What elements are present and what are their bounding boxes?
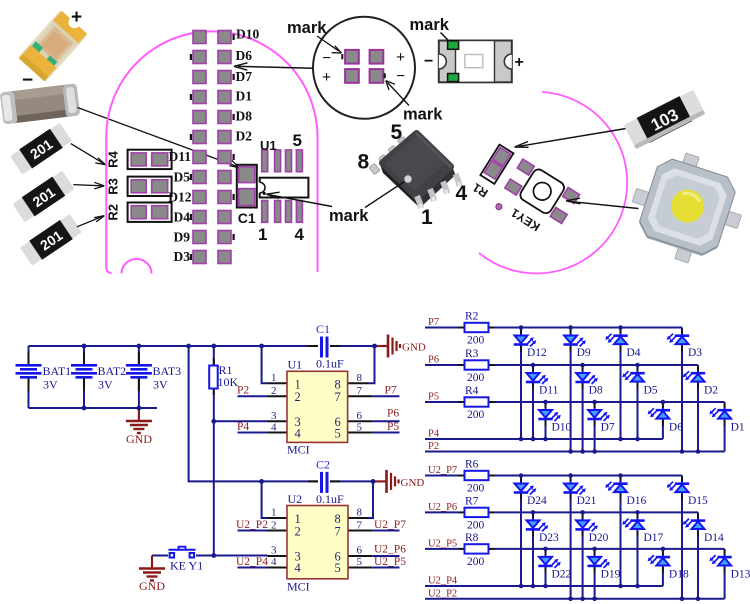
svg-text:5: 5: [335, 561, 341, 575]
battery BAT1: [16, 365, 42, 377]
LED D8: [575, 371, 598, 384]
LED D5: [622, 371, 645, 383]
svg-text:P5: P5: [387, 421, 399, 433]
svg-text:D2: D2: [704, 385, 718, 397]
svg-text:D8: D8: [589, 385, 603, 397]
svg-text:1: 1: [258, 225, 267, 244]
svg-text:3: 3: [271, 545, 277, 557]
svg-text:7: 7: [357, 520, 363, 532]
svg-text:MCI: MCI: [287, 443, 310, 457]
LED D24: [514, 482, 537, 495]
LED pin stubs: [521, 329, 725, 427]
long arrow from circle to D7 pads: [238, 66, 313, 68]
svg-text:8: 8: [358, 151, 370, 174]
svg-text:6: 6: [357, 545, 363, 557]
footprint R4: [128, 150, 172, 169]
svg-text:D18: D18: [669, 568, 689, 580]
wire: U2 pin4 net U2_P4: [238, 567, 268, 569]
wire: key to U2 pin3: [196, 555, 268, 557]
U1 net labels: [237, 385, 399, 434]
footprint U1 pads top: [262, 150, 303, 222]
svg-text:3V: 3V: [98, 378, 113, 392]
svg-text:R7: R7: [465, 495, 479, 507]
svg-text:mark: mark: [410, 16, 450, 34]
LED D7: [587, 408, 610, 421]
svg-text:D1: D1: [731, 422, 745, 434]
svg-text:7: 7: [357, 385, 363, 397]
ground right of C2: [373, 470, 399, 493]
pin stubs black: [29, 346, 373, 568]
svg-text:+: +: [515, 54, 524, 71]
LED pin stubs: [521, 477, 725, 573]
svg-text:D5: D5: [644, 385, 658, 397]
svg-text:4: 4: [456, 182, 468, 205]
svg-text:R4: R4: [106, 150, 121, 167]
wire: U1 pin7 net P7: [372, 395, 399, 397]
wire: row P7: [425, 328, 725, 452]
svg-text:D16: D16: [627, 495, 647, 507]
LED D10: [538, 408, 561, 421]
footprint R1 outline: [480, 145, 513, 184]
svg-text:R2: R2: [106, 204, 121, 221]
svg-text:mark: mark: [329, 207, 369, 225]
svg-text:−: −: [396, 68, 405, 85]
svg-text:U2_P7: U2_P7: [374, 519, 406, 531]
wire: U2 pin7 net U2_P7: [372, 530, 399, 532]
svg-text:1: 1: [271, 507, 277, 519]
wire: U1 pin5 net P5: [372, 432, 399, 434]
svg-text:4: 4: [271, 421, 277, 433]
junction dots: [519, 473, 701, 601]
svg-text:GND: GND: [126, 432, 152, 446]
svg-text:U2_P4: U2_P4: [428, 576, 458, 587]
footprint R3: [128, 177, 172, 196]
LED D21: [563, 482, 586, 495]
LED column wires: [521, 328, 725, 452]
LED D17: [622, 518, 645, 530]
KEY1 body outline: [518, 167, 566, 215]
photo: push button: [620, 142, 750, 274]
svg-text:D4: D4: [174, 210, 191, 225]
footprint R2: [128, 203, 172, 222]
photo: resistor 201 #2: [12, 170, 75, 223]
svg-text:P7: P7: [428, 317, 439, 328]
resistor R6 200: [465, 471, 489, 480]
push switch KEY1: [169, 547, 196, 558]
wire: battery left leg: [28, 346, 30, 365]
pad polarity tick marks: [190, 34, 235, 260]
wire: U2 pin8 riser: [368, 481, 373, 518]
svg-text:D3: D3: [174, 249, 191, 264]
U2 inside pin numbers: [295, 512, 341, 575]
svg-text:7: 7: [335, 525, 341, 539]
wire: U1 pin4 net P4: [238, 432, 268, 434]
junction dots: [519, 325, 701, 454]
svg-text:U2_P4: U2_P4: [236, 556, 268, 568]
svg-text:200: 200: [467, 409, 485, 421]
resistor R8 200: [465, 544, 489, 553]
wire: VCC drop to U2 rail: [189, 346, 318, 481]
PCB LED pads grid: [193, 31, 231, 264]
svg-text:4: 4: [271, 556, 277, 568]
LED D23: [526, 518, 549, 531]
soic body: [380, 165, 420, 209]
LED D1: [709, 408, 732, 420]
svg-text:4: 4: [295, 225, 305, 244]
svg-text:D22: D22: [552, 568, 572, 580]
svg-text:200: 200: [467, 519, 485, 531]
svg-text:C2: C2: [316, 458, 330, 472]
svg-text:U2_P6: U2_P6: [374, 544, 406, 556]
svg-text:−: −: [22, 70, 33, 91]
footprint C1: [237, 165, 257, 208]
U2 net labels: [236, 519, 406, 568]
svg-text:D11: D11: [539, 385, 559, 397]
circle polarity signs: [322, 49, 405, 86]
svg-text:2: 2: [271, 520, 277, 532]
svg-text:+: +: [71, 7, 82, 28]
PCB board outline (pink capsule): [106, 31, 317, 272]
svg-text:P2: P2: [237, 385, 249, 397]
svg-text:D9: D9: [577, 347, 591, 359]
wire: U2 pin1 feed: [262, 481, 268, 518]
svg-text:D6: D6: [669, 422, 683, 434]
svg-text:D13: D13: [731, 568, 750, 580]
LED D20: [575, 518, 598, 531]
svg-text:D15: D15: [688, 495, 708, 507]
LED D19: [587, 555, 610, 568]
svg-text:P2: P2: [428, 441, 439, 452]
svg-text:U2_P6: U2_P6: [428, 502, 457, 513]
svg-text:0.1uF: 0.1uF: [316, 492, 344, 506]
junction dots left schematic: [82, 344, 377, 558]
battery BAT2: [71, 365, 97, 377]
svg-text:GND: GND: [402, 342, 426, 354]
svg-text:D21: D21: [577, 495, 597, 507]
resistor R2 200: [465, 323, 489, 332]
ground below key: [139, 556, 165, 581]
svg-text:D2: D2: [236, 129, 253, 144]
arrow button photo to KEY1 footprint: [568, 201, 639, 208]
svg-text:mark: mark: [403, 106, 443, 124]
svg-text:D9: D9: [174, 230, 191, 245]
photo: resistor 201 #1: [10, 122, 73, 175]
svg-text:D24: D24: [527, 495, 547, 507]
svg-text:D19: D19: [601, 568, 621, 580]
wire: U1 pin6 net P6: [372, 420, 399, 422]
svg-text:D7: D7: [236, 69, 253, 84]
LED D18: [648, 555, 671, 567]
svg-text:5: 5: [391, 121, 403, 144]
KEY1 pads: [517, 159, 534, 175]
svg-text:1: 1: [271, 372, 277, 384]
wire: row U2_P7: [425, 476, 725, 599]
svg-text:D1: D1: [236, 89, 253, 104]
arrow capacitor to C1 footprint: [78, 108, 238, 167]
svg-text:D10: D10: [236, 27, 259, 42]
svg-text:D8: D8: [236, 109, 253, 124]
svg-text:D6: D6: [236, 48, 253, 63]
wire: VCC top rail: [29, 345, 319, 347]
LED designators: [527, 347, 745, 434]
svg-text:R8: R8: [465, 532, 479, 544]
svg-text:P4: P4: [428, 429, 440, 440]
svg-text:8: 8: [357, 507, 363, 519]
wire: U1 pin2 net P2: [238, 395, 268, 397]
svg-text:0.1uF: 0.1uF: [316, 357, 344, 371]
svg-text:+: +: [322, 69, 331, 86]
LED D14: [683, 518, 706, 530]
right PCB pink arc: [479, 92, 627, 273]
LED D11: [526, 371, 549, 384]
svg-text:P6: P6: [387, 408, 399, 420]
LED D16: [605, 482, 628, 494]
wire: U2 pin2 net U2_P2: [238, 530, 268, 532]
svg-text:8: 8: [357, 372, 363, 384]
zoom circle: [313, 17, 415, 119]
svg-text:10K: 10K: [218, 375, 239, 389]
svg-text:U1: U1: [288, 358, 303, 372]
resistor R4 200: [465, 397, 489, 406]
svg-text:200: 200: [467, 556, 485, 568]
svg-text:R2: R2: [465, 311, 479, 323]
svg-text:BAT1: BAT1: [43, 364, 72, 378]
wire: U1 pin3 net: [214, 420, 268, 422]
resistor R7 200: [465, 508, 489, 517]
svg-text:200: 200: [467, 483, 485, 495]
svg-text:C1: C1: [238, 210, 256, 226]
KEY1/R1 footprint group (rotated): [469, 144, 580, 243]
photo: resistor 201 #3: [20, 214, 83, 267]
PCB bottom notch circle: [122, 259, 152, 274]
arrow resistor2 to R3: [73, 185, 102, 186]
ground below battery: [126, 408, 152, 433]
svg-text:D5: D5: [174, 170, 191, 185]
ground right of C1: [375, 335, 401, 358]
svg-text:P5: P5: [428, 392, 439, 403]
svg-text:2: 2: [295, 390, 301, 404]
svg-text:D10: D10: [552, 422, 572, 434]
svg-text:2: 2: [295, 525, 301, 539]
PCB silk labels D10,D6,D7,D1,D8,D2 (right side): [236, 27, 260, 144]
svg-text:U2: U2: [288, 492, 303, 506]
svg-text:KE Y1: KE Y1: [170, 559, 203, 573]
soic pins top row: [369, 136, 409, 174]
arrow resistor1 to R4: [71, 144, 104, 164]
wire: U2 pin6 net U2_P6: [372, 555, 399, 557]
LED D12: [514, 334, 537, 347]
svg-text:D3: D3: [688, 347, 702, 359]
svg-text:D7: D7: [601, 422, 615, 434]
svg-text:D14: D14: [704, 532, 724, 544]
U1 outside pin numbers: [271, 372, 363, 433]
PCB silk labels D11,D5,D12,D4,D9,D3 (left side): [168, 149, 191, 264]
LED D9: [563, 334, 586, 347]
svg-text:MCI: MCI: [287, 580, 310, 594]
battery labels: [43, 364, 182, 392]
LED designators: [527, 495, 750, 580]
svg-text:R3: R3: [465, 348, 479, 360]
svg-text:mark: mark: [287, 19, 327, 37]
svg-text:−: −: [424, 53, 433, 70]
LED footprint diagram: [439, 41, 512, 83]
svg-text:D4: D4: [627, 347, 641, 359]
wire: U1 pin1 feed: [262, 346, 268, 383]
svg-text:U2_P2: U2_P2: [428, 588, 457, 599]
capacitor C1: [320, 337, 323, 358]
svg-text:D17: D17: [644, 532, 664, 544]
wire: R1/key column: [213, 346, 215, 556]
LED D2: [683, 371, 706, 383]
svg-text:−: −: [322, 50, 331, 67]
svg-text:+: +: [396, 49, 405, 66]
via dot: [495, 203, 503, 211]
LED D3: [667, 334, 690, 346]
wire: U2 pin5 net U2_P5: [372, 567, 399, 569]
soic pins bottom row: [417, 174, 460, 208]
photo: SMD LED component: [18, 10, 88, 82]
resistor R3 200: [465, 360, 489, 369]
battery BAT3: [126, 365, 152, 377]
IC U2: [287, 506, 348, 579]
svg-text:5: 5: [357, 556, 363, 568]
photo: SOIC-8 chip: [369, 134, 460, 209]
LED D4: [605, 334, 628, 346]
svg-text:3: 3: [271, 410, 277, 422]
svg-text:D12: D12: [527, 347, 547, 359]
svg-text:U2_P5: U2_P5: [374, 556, 406, 568]
wire: U1 pin8 riser: [368, 346, 375, 383]
svg-text:P4: P4: [237, 421, 249, 433]
svg-text:200: 200: [467, 335, 485, 347]
svg-text:200: 200: [467, 372, 485, 384]
svg-text:D20: D20: [589, 532, 609, 544]
wire: battery bottom rail: [29, 407, 158, 409]
svg-text:5: 5: [357, 421, 363, 433]
svg-text:7: 7: [335, 390, 341, 404]
svg-text:D23: D23: [539, 532, 559, 544]
svg-text:U2_P2: U2_P2: [236, 519, 268, 531]
svg-text:U1: U1: [260, 138, 277, 153]
svg-text:4: 4: [295, 561, 302, 575]
photo: 103 resistor: [623, 89, 705, 149]
arrow resistor3 to R2: [77, 216, 103, 226]
wire: key left to gnd: [152, 555, 168, 557]
svg-text:4: 4: [295, 426, 302, 440]
svg-text:GND: GND: [139, 579, 165, 593]
wire: BAT3 vertical: [138, 346, 140, 365]
svg-text:6: 6: [357, 410, 363, 422]
LED column wires: [521, 476, 725, 599]
photo: ceramic capacitor: [0, 83, 80, 124]
wire: BAT2 vertical: [83, 346, 85, 365]
svg-text:R3: R3: [106, 178, 121, 195]
svg-text:5: 5: [293, 131, 302, 150]
IC U1: [287, 371, 348, 442]
pads inside circle: [345, 50, 383, 83]
svg-text:BAT3: BAT3: [153, 364, 182, 378]
svg-text:P7: P7: [385, 385, 397, 397]
svg-text:U2_P7: U2_P7: [428, 465, 457, 476]
svg-text:GND: GND: [401, 477, 425, 489]
svg-text:2: 2: [271, 385, 277, 397]
footprint U1 body: [260, 178, 309, 198]
svg-text:R4: R4: [465, 385, 479, 397]
resistor R1: [209, 366, 218, 389]
svg-text:U2_P5: U2_P5: [428, 538, 457, 549]
svg-text:3V: 3V: [43, 378, 58, 392]
svg-text:BAT2: BAT2: [98, 364, 127, 378]
svg-text:R6: R6: [465, 459, 479, 471]
LED D6: [648, 408, 671, 420]
svg-text:C1: C1: [316, 322, 330, 336]
arrow 103 resistor to R1 footprint: [519, 129, 626, 147]
LED D15: [667, 482, 690, 494]
U1 inside pin numbers: [295, 377, 341, 440]
svg-text:5: 5: [335, 426, 341, 440]
LED D13: [709, 555, 732, 567]
svg-text:1: 1: [421, 206, 433, 229]
capacitor C2: [320, 472, 323, 493]
svg-text:3V: 3V: [153, 378, 168, 392]
svg-text:P6: P6: [428, 355, 439, 366]
U2 outside pin numbers: [271, 507, 363, 568]
LED D22: [538, 555, 561, 568]
